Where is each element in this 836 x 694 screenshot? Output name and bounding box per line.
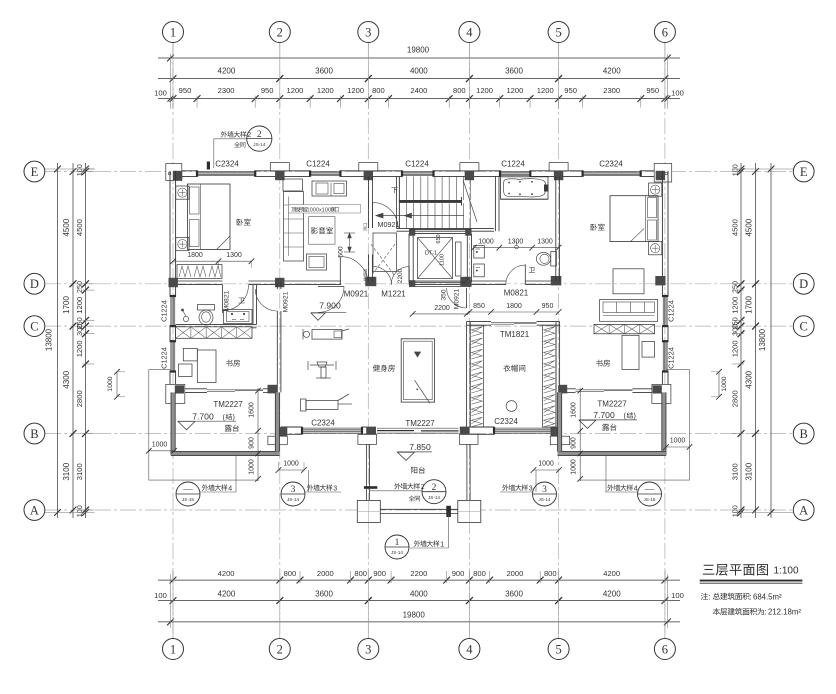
svg-text:JS-14: JS-14 [391, 550, 403, 555]
svg-text:2200: 2200 [410, 569, 427, 578]
svg-text:C1224: C1224 [160, 347, 169, 369]
svg-text:2800: 2800 [731, 390, 740, 407]
svg-text:4: 4 [466, 25, 473, 39]
svg-text:B: B [30, 427, 38, 441]
svg-text:1000: 1000 [721, 376, 728, 391]
svg-text:850: 850 [473, 303, 485, 310]
svg-text:300: 300 [731, 324, 740, 336]
left wing south wall with TM2227 opening [176, 388, 207, 390]
inner dim 1000 right of balcony [534, 469, 560, 471]
columns on E wall [173, 171, 182, 180]
svg-text:4200: 4200 [603, 66, 621, 75]
stair break line [463, 180, 477, 222]
svg-text:1: 1 [440, 541, 444, 548]
media armchair [283, 179, 303, 191]
void door arc [374, 267, 392, 285]
svg-text:2000: 2000 [506, 569, 523, 578]
wall D segments with door openings [176, 280, 223, 282]
bed left [188, 184, 231, 250]
room label terrace right [602, 424, 616, 431]
svg-text:2300: 2300 [603, 86, 620, 95]
stair rail [400, 200, 462, 203]
left dimension chains [57, 163, 59, 518]
svg-text:M0921: M0921 [378, 220, 400, 229]
svg-text:3: 3 [542, 485, 547, 495]
left bath shower head [183, 316, 188, 321]
svg-text:2400: 2400 [410, 86, 427, 95]
axis circles right A-E [793, 161, 814, 182]
planter band right at C [594, 324, 655, 333]
svg-text:1200: 1200 [537, 86, 554, 95]
study desk left [197, 350, 216, 383]
callout exterior detail 4 right [607, 484, 633, 490]
svg-text:1000: 1000 [478, 239, 494, 246]
door M1221 [408, 267, 410, 285]
note line 1 [701, 593, 708, 600]
svg-text:B: B [800, 427, 808, 441]
svg-text:1700: 1700 [745, 296, 754, 314]
title underline [700, 580, 803, 582]
svg-text:1200: 1200 [75, 297, 84, 314]
svg-text:3: 3 [333, 485, 337, 492]
svg-text:E: E [31, 165, 39, 179]
svg-text:1000: 1000 [107, 376, 114, 391]
svg-text:1200: 1200 [75, 340, 84, 357]
svg-text:C2324: C2324 [494, 417, 518, 426]
svg-text:13800: 13800 [45, 328, 54, 351]
svg-text:1000x1000: 1000x1000 [307, 207, 335, 213]
media sofa [284, 192, 304, 262]
bath tub room wall [494, 176, 496, 231]
svg-text:3600: 3600 [315, 590, 333, 599]
svg-text:3600: 3600 [505, 590, 523, 599]
svg-text:M0921: M0921 [344, 290, 369, 299]
gym treadmill [312, 330, 342, 340]
svg-text:800: 800 [284, 569, 297, 578]
callout exterior detail 3 right [502, 484, 528, 490]
room label media [311, 227, 333, 234]
svg-text:1700: 1700 [62, 296, 71, 314]
svg-text:1: 1 [170, 25, 176, 39]
svg-text:C1224: C1224 [667, 347, 676, 369]
stair boundary lower [397, 228, 495, 230]
left bathroom right wall [252, 285, 254, 325]
room label gym [373, 365, 395, 372]
svg-text:1300: 1300 [537, 239, 553, 246]
stair treads lower flight [399, 203, 401, 228]
gym bench [306, 401, 338, 410]
svg-text:2800: 2800 [75, 390, 84, 407]
svg-text:3: 3 [365, 642, 371, 656]
svg-text:C2324: C2324 [215, 160, 239, 169]
wall E with windows [169, 170, 197, 172]
terrace dim chain right [579, 388, 581, 481]
svg-text::: : [765, 608, 767, 617]
closet side walls [466, 322, 468, 427]
svg-text:900: 900 [452, 569, 465, 578]
svg-text:M0921: M0921 [454, 289, 461, 309]
svg-text:950: 950 [542, 303, 554, 310]
svg-text:C: C [30, 319, 38, 333]
svg-text:1800: 1800 [506, 303, 522, 310]
svg-text:1: 1 [170, 642, 176, 656]
closet wardrobe hatching [470, 325, 483, 427]
bookshelf right [600, 300, 658, 322]
stair treads upper flight [399, 176, 401, 200]
svg-text:DT-1: DT-1 [425, 251, 438, 257]
svg-text:2000: 2000 [317, 569, 334, 578]
junction column right wing [558, 385, 567, 394]
svg-text:3100: 3100 [731, 463, 740, 480]
svg-text:C: C [800, 319, 808, 333]
room label balcony [411, 467, 425, 474]
svg-text:100: 100 [154, 89, 167, 98]
wall B with window C2324 left [281, 426, 302, 428]
stair hall walls axis3 [368, 176, 370, 228]
media tv cabinet [312, 181, 347, 196]
note line 2 [713, 608, 764, 615]
svg-text:TM2227: TM2227 [597, 400, 627, 409]
media 500 dim [349, 233, 351, 252]
planter band left at C [176, 327, 252, 339]
svg-text:1:100: 1:100 [774, 566, 799, 577]
svg-text:684.5m²: 684.5m² [753, 592, 782, 601]
svg-text:7.850: 7.850 [409, 442, 431, 452]
svg-text:4: 4 [466, 642, 473, 656]
elevator shaft walls [409, 228, 472, 230]
svg-text:C1224: C1224 [160, 300, 169, 322]
svg-text:500: 500 [338, 246, 345, 258]
svg-text:2200: 2200 [397, 268, 404, 283]
left bath door M0821 [222, 285, 224, 313]
svg-text:D: D [799, 277, 808, 291]
svg-text:4000: 4000 [410, 590, 428, 599]
bottom dimension lines [158, 579, 680, 581]
svg-text:): ) [634, 411, 636, 420]
svg-text:TM1821: TM1821 [500, 330, 530, 339]
piers at B columns [358, 434, 377, 444]
bathtub [501, 177, 549, 199]
svg-text:—: — [644, 485, 655, 495]
svg-text:2: 2 [257, 130, 262, 140]
svg-text:650: 650 [436, 234, 442, 243]
svg-text:1200: 1200 [731, 297, 740, 314]
svg-text:JS-15: JS-15 [643, 497, 655, 502]
svg-text:1000: 1000 [283, 461, 299, 468]
dresser right [613, 269, 644, 294]
svg-text:1000: 1000 [538, 461, 554, 468]
left terrace parapets [171, 392, 175, 455]
svg-text:1000: 1000 [249, 459, 256, 475]
left bath vanity [224, 310, 253, 324]
left bath bottom wall at C [176, 323, 257, 325]
svg-text:3600: 3600 [505, 66, 523, 75]
svg-text:1000: 1000 [670, 438, 686, 445]
axis circles left A-E [24, 161, 45, 182]
overhang dim 1000 right [666, 446, 690, 448]
svg-text:4500: 4500 [75, 219, 84, 236]
svg-text:3100: 3100 [75, 463, 84, 480]
bath dims 1000 1300 1300 [474, 247, 559, 249]
right terrace parapets [662, 392, 666, 455]
svg-text:6: 6 [662, 642, 668, 656]
stair stringer wall [396, 176, 398, 228]
balcony pillars at A [357, 500, 380, 522]
room label study right [596, 360, 610, 367]
axis circles top 1-6 [163, 22, 184, 43]
svg-text:950: 950 [179, 86, 192, 95]
bed right [610, 196, 658, 242]
callout exterior detail 2 balcony [394, 483, 420, 489]
svg-text:13800: 13800 [758, 328, 767, 351]
stair direction arrow [376, 215, 464, 217]
svg-text:C1224: C1224 [667, 300, 676, 322]
room label study left [226, 360, 240, 367]
svg-text:3: 3 [291, 485, 296, 495]
svg-text:7.700: 7.700 [593, 410, 615, 420]
svg-text:1100: 1100 [440, 254, 446, 266]
svg-text:3: 3 [365, 25, 371, 39]
svg-text:1200: 1200 [731, 340, 740, 357]
callout exterior detail 1 bottom [385, 535, 409, 559]
svg-text:3100: 3100 [62, 462, 71, 480]
svg-text:800: 800 [354, 569, 367, 578]
svg-text:JS-14: JS-14 [538, 497, 550, 502]
svg-text:M0821: M0821 [504, 289, 529, 298]
gym left wall with study door [276, 283, 278, 289]
svg-text:A: A [30, 503, 39, 517]
vent shaft with dashed cross [373, 233, 397, 272]
wall B with window C2324 right [470, 426, 494, 428]
svg-text:4200: 4200 [218, 569, 235, 578]
side dim 1000 right wall [718, 372, 720, 397]
svg-text:6: 6 [662, 25, 668, 39]
columns at B [277, 427, 287, 436]
balcony front railing [380, 508, 458, 510]
svg-text:E: E [800, 165, 808, 179]
svg-text:C2324: C2324 [311, 419, 335, 428]
svg-text:19800: 19800 [407, 45, 430, 54]
svg-text:800: 800 [372, 86, 385, 95]
nightstands right [649, 183, 662, 196]
svg-text:M0921: M0921 [283, 291, 290, 312]
nightstands left [176, 186, 189, 199]
svg-text:4000: 4000 [410, 66, 428, 75]
door M0921 axis4 corridor [466, 288, 468, 308]
inner dim 1000 left of balcony [279, 469, 305, 471]
wall right axis6 with windows [661, 171, 663, 296]
stair hall door M0921 axis3 [371, 202, 373, 228]
svg-text:950: 950 [646, 86, 659, 95]
top dimension lines [158, 57, 680, 59]
svg-text:C2324: C2324 [599, 160, 623, 169]
svg-text:2: 2 [277, 642, 283, 656]
junction column left wing [268, 385, 278, 394]
svg-text:): ) [233, 412, 235, 421]
roof overhang outline right [580, 370, 690, 480]
terrace dim chain left [257, 388, 259, 481]
axis circles bottom 1-6 [163, 639, 184, 660]
svg-text:800: 800 [453, 86, 466, 95]
svg-text::: : [708, 592, 710, 601]
callout top wall detail 2 [221, 131, 247, 137]
room label bedroom right [591, 224, 605, 231]
bath toilet [551, 252, 557, 267]
svg-text:4: 4 [634, 485, 638, 492]
svg-text:1200: 1200 [287, 86, 304, 95]
elevator counterweight [456, 242, 462, 276]
svg-text:19800: 19800 [403, 610, 426, 619]
svg-text:1600: 1600 [571, 402, 578, 418]
svg-text:C1224: C1224 [501, 160, 525, 169]
svg-text:4200: 4200 [603, 569, 620, 578]
bath-bedroom wall axis5 [555, 176, 557, 281]
svg-text:1200: 1200 [347, 86, 364, 95]
study door arc [255, 289, 277, 311]
gym door arc at D [318, 285, 344, 287]
svg-text:800: 800 [544, 569, 557, 578]
svg-text:1600: 1600 [249, 402, 256, 418]
svg-text:350: 350 [441, 289, 448, 300]
svg-text:100: 100 [154, 591, 167, 600]
media rug [309, 217, 335, 245]
svg-text:300: 300 [75, 324, 84, 336]
right wing south wall with TM2227 opening [561, 388, 575, 390]
side dim 1000 left wall [116, 372, 118, 397]
grid axis lines [172, 43, 174, 638]
svg-text:JS-14: JS-14 [253, 142, 265, 147]
svg-text:1300: 1300 [508, 239, 524, 246]
corridor dim 2200 [413, 313, 467, 315]
elevator cab with cross [418, 238, 453, 279]
media opening note [289, 205, 361, 213]
svg-text:7.900: 7.900 [319, 300, 341, 310]
svg-text:1800: 1800 [187, 252, 203, 259]
balcony side rails [365, 444, 367, 500]
gym station [317, 362, 327, 367]
closet dim 850 1800 950 [469, 311, 558, 313]
room label bedroom left [237, 219, 251, 226]
svg-text:TM2227: TM2227 [213, 400, 243, 409]
svg-text:M1221: M1221 [381, 290, 406, 299]
svg-text:JS-14: JS-14 [287, 497, 299, 502]
callout exterior detail 3 left [281, 482, 305, 506]
title text [703, 564, 768, 576]
room label terrace left [225, 425, 239, 432]
pool table [401, 339, 434, 402]
svg-text:A: A [799, 503, 808, 517]
svg-text:1200: 1200 [476, 86, 493, 95]
svg-text:1200: 1200 [506, 86, 523, 95]
svg-text:1000: 1000 [152, 442, 168, 449]
svg-text:2: 2 [432, 483, 437, 493]
piers above wall E [270, 163, 289, 171]
svg-text:4200: 4200 [218, 66, 236, 75]
desk right [622, 335, 639, 369]
svg-text:900: 900 [249, 437, 256, 449]
svg-text:950: 950 [261, 86, 274, 95]
svg-text:100: 100 [671, 89, 684, 98]
overhang dim 1000 left [149, 450, 174, 452]
svg-text:3: 3 [529, 485, 533, 492]
svg-text:1: 1 [395, 538, 400, 548]
svg-text:D: D [30, 277, 39, 291]
svg-text:900: 900 [373, 569, 386, 578]
svg-text:212.18m²: 212.18m² [768, 608, 801, 617]
svg-text:M0821: M0821 [224, 290, 231, 311]
bath door M0821 [524, 264, 526, 284]
svg-text:950: 950 [564, 86, 577, 95]
svg-text:C1224: C1224 [405, 160, 429, 169]
columns at D [169, 278, 178, 287]
svg-text:5: 5 [555, 25, 561, 39]
svg-text:2: 2 [277, 25, 283, 39]
svg-text:JS-15: JS-15 [182, 497, 194, 502]
svg-text:7.700: 7.700 [192, 411, 214, 421]
media door arc [339, 257, 341, 285]
svg-text:2300: 2300 [218, 86, 235, 95]
svg-text:4300: 4300 [62, 370, 71, 388]
svg-text:1300: 1300 [226, 252, 242, 259]
wall left axis1 with windows [169, 171, 171, 296]
svg-text:4200: 4200 [603, 590, 621, 599]
roof overhang outline left [149, 370, 259, 480]
svg-text:100: 100 [671, 591, 684, 600]
media coffee table [307, 254, 327, 270]
closet top wall with TM1821 opening [467, 321, 491, 323]
svg-text:—: — [182, 485, 193, 495]
svg-text::: : [750, 592, 752, 601]
corner piers at wing walls [166, 384, 185, 403]
svg-text:900: 900 [571, 437, 578, 449]
svg-text:4300: 4300 [745, 370, 754, 388]
svg-text:4500: 4500 [62, 218, 71, 236]
svg-text:4500: 4500 [731, 219, 740, 236]
svg-text:3100: 3100 [745, 462, 754, 480]
svg-text:1200: 1200 [317, 86, 334, 95]
svg-text:4: 4 [228, 485, 232, 492]
svg-text:800: 800 [473, 569, 486, 578]
svg-text:5: 5 [555, 642, 561, 656]
bath sinks [474, 246, 485, 259]
svg-text:JS-14: JS-14 [428, 495, 440, 500]
left bath toilet [198, 305, 215, 311]
right dimension chains [740, 163, 742, 518]
svg-text:3600: 3600 [315, 66, 333, 75]
svg-text:2200: 2200 [434, 305, 450, 312]
svg-text:TM2227: TM2227 [405, 419, 435, 428]
svg-text:4500: 4500 [745, 218, 754, 236]
bath floor drain [515, 245, 519, 249]
wardrobe left bedroom [177, 265, 222, 279]
bed dims 1800 1300 [173, 260, 252, 262]
room label closet [503, 365, 525, 372]
svg-text:C1224: C1224 [306, 160, 330, 169]
callout exterior detail 4 left [176, 482, 200, 506]
wall B balcony door TM2227 [377, 427, 459, 429]
svg-text:1000: 1000 [571, 459, 578, 475]
svg-text:4200: 4200 [218, 590, 236, 599]
